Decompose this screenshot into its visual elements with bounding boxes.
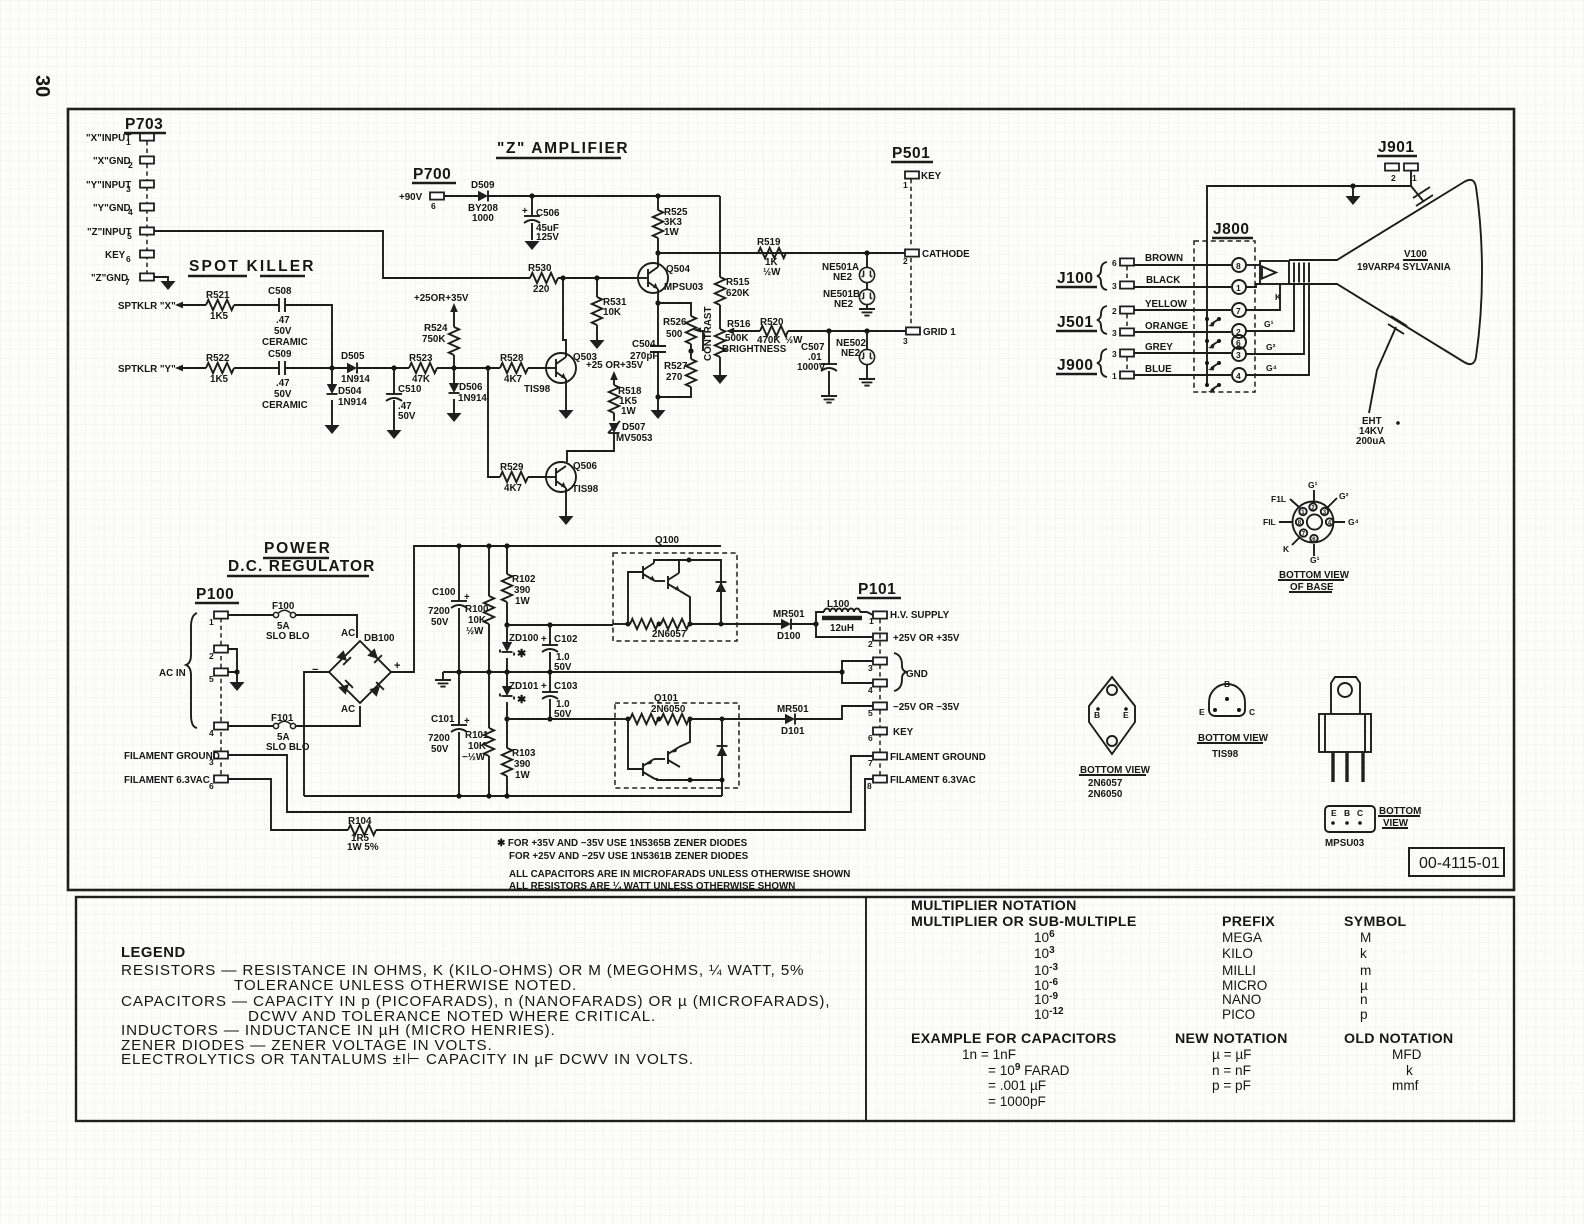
pin 3 FILAMENT GROUND bbox=[214, 751, 228, 758]
capacitor C507 .01 1000V bbox=[797, 331, 837, 396]
wire BLACK to pin1 bbox=[1134, 275, 1231, 287]
resistor R518 1K5 1W bbox=[609, 385, 642, 421]
svg-text:1000V: 1000V bbox=[797, 362, 826, 373]
svg-text:1: 1 bbox=[1236, 283, 1241, 293]
node C506 top bbox=[529, 193, 534, 198]
svg-text:1000: 1000 bbox=[472, 213, 494, 224]
svg-text:= 1000pF: = 1000pF bbox=[988, 1094, 1046, 1109]
transistor Q504 MPSU03 bbox=[638, 263, 704, 293]
svg-text:ALL CAPACITORS ARE IN MICROFA: ALL CAPACITORS ARE IN MICROFARADS UNLESS… bbox=[509, 869, 850, 880]
svg-text:MULTIPLIER NOTATION: MULTIPLIER NOTATION bbox=[911, 898, 1077, 914]
svg-text:NE2: NE2 bbox=[833, 272, 853, 283]
svg-text:µ: µ bbox=[1360, 978, 1368, 993]
svg-text:J800: J800 bbox=[1213, 221, 1249, 238]
svg-text:G¹: G¹ bbox=[1308, 480, 1318, 490]
zener ZD101 bbox=[500, 672, 539, 719]
svg-text:−½W: −½W bbox=[462, 752, 486, 763]
wire C508 to corner down bbox=[285, 305, 332, 368]
connector P101 pin2 +25V OR +35V bbox=[868, 633, 960, 649]
wire plus25 to MR501 bbox=[737, 623, 781, 625]
node R526 R527 junction bbox=[688, 348, 693, 353]
resistor R515 620K bbox=[715, 277, 750, 329]
connector P700 pin6 +90V bbox=[399, 192, 444, 211]
resistor R101 10K halfW bbox=[462, 672, 494, 799]
svg-text:4: 4 bbox=[128, 207, 133, 217]
wire emitter node to R526 bbox=[658, 303, 691, 316]
capacitor C100 7200 50V bbox=[428, 543, 470, 674]
svg-text:R524: R524 bbox=[424, 323, 448, 334]
svg-text:V100: V100 bbox=[1404, 249, 1427, 260]
svg-text:CERAMIC: CERAMIC bbox=[262, 400, 308, 411]
svg-text:30: 30 bbox=[31, 75, 53, 97]
svg-text:"Y"GND: "Y"GND bbox=[93, 203, 131, 214]
svg-text:C504: C504 bbox=[632, 339, 656, 350]
svg-text:m: m bbox=[1360, 963, 1371, 978]
pin 5 Z INPUT bbox=[140, 227, 154, 234]
ground under NE501B bbox=[859, 305, 875, 316]
svg-text:B: B bbox=[1344, 808, 1350, 818]
svg-text:FOR +25V AND −25V USE 1N5361B: FOR +25V AND −25V USE 1N5361B ZENER DIOD… bbox=[509, 851, 749, 862]
svg-text:3: 3 bbox=[209, 757, 214, 767]
svg-text:P501: P501 bbox=[892, 145, 930, 162]
svg-text:p = pF: p = pF bbox=[1212, 1078, 1251, 1093]
brace GND pins 3-4 bbox=[894, 653, 928, 691]
svg-text:Q504: Q504 bbox=[666, 264, 691, 275]
svg-text:H.V. SUPPLY: H.V. SUPPLY bbox=[890, 610, 950, 621]
wire bridge plus to top bus bbox=[391, 546, 721, 672]
svg-text:+90V: +90V bbox=[399, 192, 423, 203]
resistor R523 47K bbox=[409, 353, 437, 385]
left vertical to T1 base bbox=[628, 719, 643, 769]
ground under C507 bbox=[821, 396, 837, 403]
svg-text:6: 6 bbox=[868, 733, 873, 743]
transistor T1 bbox=[642, 566, 644, 579]
svg-text:6: 6 bbox=[209, 781, 214, 791]
part number box 00-4115-01 bbox=[1409, 848, 1504, 876]
collector rail exits to bottom bus bbox=[721, 780, 723, 796]
svg-text:NE2: NE2 bbox=[841, 348, 861, 359]
svg-text:10K: 10K bbox=[468, 615, 486, 626]
svg-text:10K: 10K bbox=[603, 307, 621, 318]
svg-text:NANO: NANO bbox=[1222, 992, 1261, 1007]
svg-text:F101: F101 bbox=[271, 713, 294, 724]
svg-text:3: 3 bbox=[1112, 349, 1117, 359]
svg-text:500: 500 bbox=[666, 329, 683, 340]
diode D507 MV5053 bbox=[608, 421, 653, 444]
svg-text:3: 3 bbox=[1112, 328, 1117, 338]
svg-text:CATHODE: CATHODE bbox=[922, 249, 970, 260]
svg-text:1N914: 1N914 bbox=[338, 397, 367, 408]
svg-text:50V: 50V bbox=[398, 411, 416, 422]
svg-text:1W: 1W bbox=[515, 770, 530, 781]
connector P101 pin8 FILAMENT 6.3VAC bbox=[867, 775, 976, 791]
ground under R516 bbox=[713, 375, 728, 384]
svg-text:1: 1 bbox=[869, 616, 874, 626]
node cathode at NE501 bbox=[864, 250, 869, 255]
svg-text:1: 1 bbox=[1412, 173, 1417, 183]
svg-text:8: 8 bbox=[1236, 261, 1241, 271]
svg-text:R520: R520 bbox=[760, 317, 784, 328]
node R525 top bbox=[655, 193, 660, 198]
svg-text:n: n bbox=[1360, 992, 1368, 1007]
svg-text:620K: 620K bbox=[726, 288, 749, 299]
svg-text:SPTKLR "X": SPTKLR "X" bbox=[118, 301, 176, 312]
svg-text:R526: R526 bbox=[663, 317, 687, 328]
svg-text:+: + bbox=[522, 206, 528, 217]
svg-text:J901: J901 bbox=[1378, 139, 1414, 156]
svg-text:47K: 47K bbox=[412, 374, 430, 385]
node R525 bottom / cathode rail bbox=[655, 250, 660, 255]
svg-text:2: 2 bbox=[903, 256, 908, 266]
svg-text:D101: D101 bbox=[781, 726, 805, 737]
wire cathode rail bbox=[658, 252, 905, 254]
fuse F101 5A SLO BLO bbox=[228, 706, 360, 753]
wire R523 to R528 bbox=[437, 367, 500, 369]
svg-text:3: 3 bbox=[1112, 281, 1117, 291]
wire +90V to D509 bbox=[444, 195, 478, 197]
svg-text:KILO: KILO bbox=[1222, 946, 1253, 961]
resistor R519 1K half W bbox=[757, 237, 786, 278]
wire D505 to R523 bbox=[357, 367, 409, 369]
svg-text:ELECTROLYTICS OR TANTALUMS ±I⊢: ELECTROLYTICS OR TANTALUMS ±I⊢ CAPACITY … bbox=[121, 1051, 694, 1068]
lamp NE502 NE2 bbox=[836, 331, 875, 365]
wire top rail drop to R515 bbox=[719, 196, 721, 277]
wire plus25 rail bbox=[507, 624, 613, 626]
package 2N6057 2N6050 bottom view bbox=[1079, 677, 1151, 800]
svg-text:D100: D100 bbox=[777, 631, 801, 642]
svg-text:MICRO: MICRO bbox=[1222, 978, 1267, 993]
svg-text:TIS98: TIS98 bbox=[524, 384, 551, 395]
svg-text:7: 7 bbox=[868, 758, 873, 768]
svg-text:SPOT KILLER: SPOT KILLER bbox=[189, 258, 316, 275]
svg-text:GND: GND bbox=[906, 669, 928, 680]
connector J900 pins bbox=[1097, 349, 1134, 381]
svg-text:D504: D504 bbox=[338, 386, 362, 397]
svg-text:K: K bbox=[1275, 292, 1282, 302]
resistor R529 4K7 bbox=[488, 368, 546, 494]
wire Q503 collector up bbox=[563, 278, 566, 357]
svg-text:4: 4 bbox=[209, 728, 214, 738]
capacitor C506 45uF 125V bbox=[522, 196, 560, 243]
svg-text:DB100: DB100 bbox=[364, 633, 395, 644]
svg-text:"Z"GND: "Z"GND bbox=[91, 273, 128, 284]
page number 30 bbox=[31, 75, 53, 97]
svg-text:1W 5%: 1W 5% bbox=[347, 842, 379, 853]
J800 pin 2 circled G1 bbox=[1232, 283, 1294, 338]
footnote zener note bbox=[497, 838, 749, 862]
svg-text:P703: P703 bbox=[125, 116, 163, 133]
svg-text:MPSU03: MPSU03 bbox=[664, 282, 704, 293]
svg-text:Q100: Q100 bbox=[655, 535, 680, 546]
svg-text:AC IN: AC IN bbox=[159, 668, 186, 679]
svg-text:12uH: 12uH bbox=[830, 623, 854, 634]
svg-text:2: 2 bbox=[1391, 173, 1396, 183]
svg-text:1N914: 1N914 bbox=[458, 393, 487, 404]
svg-text:1W: 1W bbox=[621, 406, 636, 417]
capacitor C509 .47 50V CERAMIC bbox=[262, 349, 308, 411]
svg-text:19VARP4 SYLVANIA: 19VARP4 SYLVANIA bbox=[1357, 262, 1451, 273]
node R531 top bbox=[594, 275, 599, 280]
svg-text:MV5053: MV5053 bbox=[616, 433, 653, 444]
connector P501 pin3 GRID1 bbox=[903, 327, 956, 346]
svg-text:ZD100: ZD100 bbox=[509, 633, 539, 644]
svg-text:G⁴: G⁴ bbox=[1348, 517, 1359, 527]
svg-text:3: 3 bbox=[1236, 350, 1241, 360]
connector P101 pin7 FILAMENT GROUND bbox=[868, 752, 986, 768]
connector J501 pins bbox=[1097, 306, 1134, 338]
svg-text:F1L: F1L bbox=[1271, 494, 1286, 504]
svg-text:TIS98: TIS98 bbox=[1212, 749, 1239, 760]
svg-text:TIS98: TIS98 bbox=[572, 484, 599, 495]
tube base bottom view bbox=[1263, 480, 1359, 593]
resistor R528 4K7 bbox=[500, 353, 546, 385]
svg-text:AC: AC bbox=[341, 628, 355, 639]
legend text block bbox=[121, 945, 830, 1068]
svg-text:G⁴: G⁴ bbox=[1266, 363, 1277, 373]
node NE502 top bbox=[864, 328, 869, 333]
svg-text:+: + bbox=[541, 634, 547, 645]
svg-text:"Z" AMPLIFIER: "Z" AMPLIFIER bbox=[497, 140, 629, 157]
pin 6 KEY bbox=[140, 250, 154, 257]
svg-text:L100: L100 bbox=[827, 599, 850, 610]
EHT 14KV 200uA lead bbox=[1356, 327, 1400, 447]
diode Q100 internal bbox=[689, 560, 721, 624]
svg-text:C510: C510 bbox=[398, 384, 422, 395]
svg-text:2: 2 bbox=[868, 639, 873, 649]
svg-text:= 109 FARAD: = 109 FARAD bbox=[988, 1062, 1070, 1078]
svg-text:"Y"INPUT: "Y"INPUT bbox=[86, 180, 131, 191]
svg-text:D509: D509 bbox=[471, 180, 495, 191]
connector P101 pin5 -25V OR -35V bbox=[868, 702, 960, 718]
svg-text:R104: R104 bbox=[348, 816, 372, 827]
transistor Q506 TIS98 bbox=[546, 461, 599, 495]
svg-text:125V: 125V bbox=[536, 232, 559, 243]
diode D505 1N914 bbox=[341, 351, 370, 385]
svg-text:= .001 µF: = .001 µF bbox=[988, 1078, 1046, 1093]
svg-text:R529: R529 bbox=[500, 462, 524, 473]
ground under C506 bbox=[525, 241, 540, 250]
svg-text:J900: J900 bbox=[1057, 357, 1093, 374]
wire D100 to L100 node bbox=[791, 623, 816, 625]
svg-text:5: 5 bbox=[127, 231, 132, 241]
supply arrow +25 OR +35V at R518 bbox=[586, 360, 644, 385]
diode MR501 D100 bbox=[773, 609, 805, 642]
resistor R102 390 1W bbox=[502, 543, 536, 625]
ground under C510 bbox=[387, 430, 402, 439]
svg-text:CONTRAST: CONTRAST bbox=[703, 307, 714, 361]
inductor L100 12uH bbox=[816, 599, 873, 634]
svg-text:MFD: MFD bbox=[1392, 1047, 1422, 1062]
svg-text:.47: .47 bbox=[276, 378, 290, 389]
svg-text:6: 6 bbox=[126, 254, 131, 264]
ground under D504 bbox=[325, 425, 340, 434]
lower legend box border bbox=[76, 897, 1514, 1121]
svg-text:1K5: 1K5 bbox=[210, 374, 229, 385]
pin 6 FILAMENT 6.3VAC bbox=[214, 775, 228, 782]
svg-text:CERAMIC: CERAMIC bbox=[262, 337, 308, 348]
svg-text:ORANGE: ORANGE bbox=[1145, 321, 1188, 332]
CRT V100 funnel bbox=[1289, 180, 1482, 364]
svg-text:2N6057: 2N6057 bbox=[652, 629, 687, 640]
svg-text:J100: J100 bbox=[1057, 270, 1093, 287]
J800 interlock contacts bbox=[1205, 317, 1221, 393]
svg-text:390: 390 bbox=[514, 585, 531, 596]
wire D101 to pin5 bbox=[795, 706, 873, 719]
svg-text:4: 4 bbox=[868, 685, 873, 695]
svg-text:E: E bbox=[1331, 808, 1337, 818]
svg-text:7200: 7200 bbox=[428, 606, 450, 617]
svg-text:k: k bbox=[1360, 946, 1367, 961]
pin 5 bbox=[214, 668, 228, 675]
svg-text:MEGA: MEGA bbox=[1222, 930, 1263, 945]
T2 emitter down bbox=[680, 591, 690, 624]
node ZD100 gnd bbox=[504, 669, 509, 674]
svg-text:PICO: PICO bbox=[1222, 1007, 1255, 1022]
svg-text:D506: D506 bbox=[459, 382, 483, 393]
svg-text:Q506: Q506 bbox=[573, 461, 598, 472]
wire filament 6.3vac run bbox=[228, 779, 348, 830]
svg-text:SLO BLO: SLO BLO bbox=[266, 631, 310, 642]
darlington Q101 2N6050 dashed box bbox=[615, 693, 739, 788]
transistor T1 of Q101 bbox=[642, 763, 644, 776]
left vertical to T1 base bbox=[628, 572, 643, 624]
svg-text:6: 6 bbox=[1112, 258, 1117, 268]
svg-text:C508: C508 bbox=[268, 286, 292, 297]
wire filament ground run bbox=[228, 755, 873, 812]
ground at P100 pin5 bbox=[230, 682, 245, 691]
wire Z input to R530 bbox=[154, 231, 530, 278]
wire dashed P101 chain bbox=[879, 619, 881, 779]
svg-text:FILAMENT GROUND: FILAMENT GROUND bbox=[124, 751, 220, 762]
svg-text:D505: D505 bbox=[341, 351, 365, 362]
svg-text:"X"GND: "X"GND bbox=[93, 156, 131, 167]
svg-text:OLD NOTATION: OLD NOTATION bbox=[1344, 1031, 1453, 1047]
svg-text:C101: C101 bbox=[431, 714, 455, 725]
svg-text:LEGEND: LEGEND bbox=[121, 945, 186, 961]
package MPSU03 front view bbox=[1319, 677, 1371, 782]
node D504 top bbox=[329, 365, 334, 370]
svg-text:GRID 1: GRID 1 bbox=[923, 327, 956, 338]
pin 1 X INPUT bbox=[140, 133, 154, 140]
svg-text:1n = 1nF: 1n = 1nF bbox=[962, 1047, 1016, 1062]
capacitor C101 7200 50V bbox=[428, 672, 470, 799]
lamp NE501A NE2 bbox=[822, 253, 875, 283]
svg-text:GREY: GREY bbox=[1145, 342, 1173, 353]
connector J901 pin2 pin1 bbox=[1385, 163, 1418, 183]
svg-text:+: + bbox=[394, 660, 400, 672]
resistor R527 270 bbox=[658, 351, 696, 397]
svg-text:P101: P101 bbox=[858, 581, 896, 598]
wire D509 to top rail corner bbox=[488, 195, 720, 197]
svg-text:FIL: FIL bbox=[1263, 517, 1276, 527]
pin 2 X GND bbox=[140, 156, 154, 163]
svg-text:E: E bbox=[1123, 710, 1129, 720]
svg-text:R530: R530 bbox=[528, 263, 552, 274]
svg-text:1: 1 bbox=[209, 617, 214, 627]
svg-text:1: 1 bbox=[1112, 371, 1117, 381]
wire GREY to pin3 bbox=[1134, 342, 1231, 353]
wire gnd bus bbox=[443, 671, 842, 673]
diode MR501 D101 bbox=[777, 704, 809, 737]
node Q503 collector branch bbox=[560, 275, 565, 280]
wire D507 to Q506 collector bbox=[567, 433, 614, 462]
label SPTKLR Y bbox=[118, 364, 206, 375]
node C504 bottom bbox=[655, 394, 660, 399]
J800 pin 3 circled G2 bbox=[1232, 283, 1304, 361]
diode D504 1N914 bbox=[327, 368, 368, 425]
svg-text:MULTIPLIER OR SUB-MULTIPLE: MULTIPLIER OR SUB-MULTIPLE bbox=[911, 914, 1137, 930]
ground under NE502 bbox=[859, 365, 875, 386]
svg-text:6: 6 bbox=[431, 201, 436, 211]
svg-text:FILAMENT 6.3VAC: FILAMENT 6.3VAC bbox=[890, 775, 976, 786]
diode Q101 internal bbox=[721, 719, 723, 780]
J800 pin 1 circled bbox=[1232, 280, 1262, 294]
diode D509 BY208 1000 bbox=[468, 180, 499, 224]
svg-text:YELLOW: YELLOW bbox=[1145, 299, 1188, 310]
main schematic border bbox=[68, 109, 1514, 890]
svg-text:NE2: NE2 bbox=[834, 299, 854, 310]
svg-text:G¹: G¹ bbox=[1264, 319, 1274, 329]
svg-text:R523: R523 bbox=[409, 353, 433, 364]
svg-text:MR501: MR501 bbox=[773, 609, 805, 620]
wire minus25 to MR501 D101 bbox=[739, 718, 785, 720]
svg-text:R515: R515 bbox=[726, 277, 750, 288]
svg-text:SYMBOL: SYMBOL bbox=[1344, 914, 1407, 930]
wire bridge minus down to bottom bus bbox=[304, 672, 329, 796]
svg-text:PREFIX: PREFIX bbox=[1222, 914, 1275, 930]
wire gnd bus to pins 3 4 bbox=[842, 661, 873, 683]
svg-text:KEY: KEY bbox=[921, 171, 942, 182]
darlington Q100 2N6057 dashed box bbox=[613, 535, 737, 641]
svg-text:"X"INPUT: "X"INPUT bbox=[86, 133, 131, 144]
connector P501 pin2 CATHODE bbox=[903, 249, 970, 266]
svg-text:SPTKLR "Y": SPTKLR "Y" bbox=[118, 364, 176, 375]
svg-text:C103: C103 bbox=[554, 681, 578, 692]
svg-text:1W: 1W bbox=[515, 596, 530, 607]
electron gun bbox=[1260, 261, 1309, 284]
wire pin2 pin5 to ground bbox=[228, 649, 237, 672]
ground at P703 pin7 bbox=[161, 281, 176, 290]
svg-text:C102: C102 bbox=[554, 634, 578, 645]
svg-text:+: + bbox=[464, 592, 470, 603]
svg-text:1N914: 1N914 bbox=[341, 374, 370, 385]
svg-text:ZD101: ZD101 bbox=[509, 681, 539, 692]
J800 dashed box bbox=[1194, 241, 1255, 392]
J800 pin 6 circled bbox=[1232, 335, 1246, 349]
svg-text:R516: R516 bbox=[727, 319, 751, 330]
connector P101 pin3 GND bbox=[868, 657, 887, 673]
wire Q504 emitter bbox=[657, 289, 659, 303]
svg-text:k: k bbox=[1406, 1063, 1413, 1078]
package TIS98 bottom view bbox=[1197, 679, 1269, 760]
svg-text:MR501: MR501 bbox=[777, 704, 809, 715]
potentiometer R526 500 bbox=[663, 316, 703, 351]
node Q504 emitter junction bbox=[655, 300, 660, 305]
wire YELLOW to pin7 bbox=[1134, 299, 1231, 310]
svg-text:FILAMENT 6.3VAC: FILAMENT 6.3VAC bbox=[124, 775, 210, 786]
node R529 branch bbox=[485, 365, 490, 370]
J800 pin 7 circled K bbox=[1232, 284, 1282, 317]
label SPTKLR X bbox=[118, 301, 206, 312]
ground under C504 bbox=[651, 397, 666, 419]
node minus25 rail left bbox=[504, 716, 509, 721]
wire J901 pin1 to anode and ground rail bbox=[1207, 171, 1411, 241]
svg-text:8: 8 bbox=[867, 781, 872, 791]
svg-text:+: + bbox=[541, 681, 547, 692]
svg-text:mmf: mmf bbox=[1392, 1078, 1419, 1093]
node R524 D506 bbox=[451, 365, 456, 370]
node R102 bottom plus25 bbox=[504, 622, 509, 627]
